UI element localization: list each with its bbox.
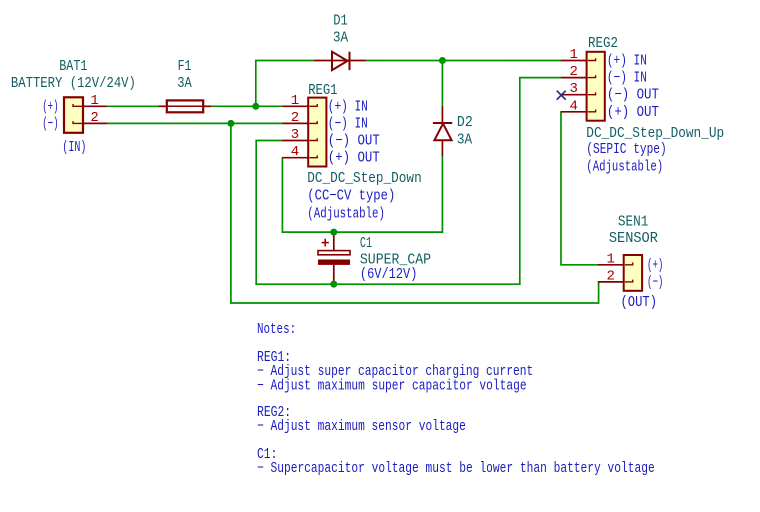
svg-text:Notes:: Notes: [257, 321, 296, 338]
svg-text:(−) OUT: (−) OUT [607, 87, 659, 104]
svg-text:F1: F1 [178, 58, 192, 75]
svg-text:C1: C1 [360, 235, 372, 252]
svg-text:SEN1: SEN1 [618, 213, 649, 230]
svg-text:(+) OUT: (+) OUT [328, 150, 380, 167]
svg-text:(+): (+) [647, 257, 663, 274]
svg-text:− Adjust maximum sensor voltag: − Adjust maximum sensor voltage [257, 418, 466, 435]
svg-text:4: 4 [291, 144, 299, 160]
svg-text:1: 1 [291, 93, 299, 109]
svg-text:BATTERY (12V/24V): BATTERY (12V/24V) [11, 75, 136, 92]
svg-text:DC_DC_Step_Down: DC_DC_Step_Down [307, 170, 421, 187]
svg-text:1: 1 [90, 93, 98, 109]
svg-text:(+): (+) [42, 98, 58, 115]
svg-text:(−) OUT: (−) OUT [328, 133, 380, 150]
svg-text:(−) IN: (−) IN [607, 70, 647, 87]
svg-text:3A: 3A [457, 132, 472, 149]
svg-text:1: 1 [569, 47, 577, 63]
svg-text:(CC−CV type): (CC−CV type) [307, 188, 395, 205]
svg-text:(IN): (IN) [62, 139, 86, 156]
svg-text:(−) IN: (−) IN [328, 115, 368, 132]
svg-text:DC_DC_Step_Down_Up: DC_DC_Step_Down_Up [586, 125, 724, 142]
svg-text:(OUT): (OUT) [621, 294, 658, 311]
svg-text:2: 2 [606, 268, 614, 284]
svg-text:− Supercapacitor voltage must: − Supercapacitor voltage must be lower t… [257, 460, 655, 477]
svg-text:3A: 3A [333, 29, 348, 46]
svg-text:2: 2 [569, 64, 577, 80]
svg-text:(SEPIC type): (SEPIC type) [586, 141, 666, 158]
svg-text:3A: 3A [177, 75, 192, 92]
svg-text:BAT1: BAT1 [59, 58, 87, 75]
svg-text:D2: D2 [457, 114, 473, 131]
svg-text:(+) OUT: (+) OUT [607, 104, 659, 121]
svg-text:(Adjustable): (Adjustable) [307, 206, 385, 223]
svg-text:REG2: REG2 [588, 35, 618, 52]
svg-text:4: 4 [569, 98, 577, 114]
svg-text:3: 3 [569, 81, 577, 97]
svg-text:2: 2 [90, 110, 98, 126]
svg-text:1: 1 [606, 251, 614, 267]
svg-text:REG1: REG1 [308, 82, 337, 99]
svg-text:SENSOR: SENSOR [609, 230, 658, 247]
svg-text:D1: D1 [333, 13, 348, 30]
svg-text:(6V/12V): (6V/12V) [360, 266, 418, 283]
svg-text:(−): (−) [647, 274, 663, 291]
svg-text:(+) IN: (+) IN [607, 53, 647, 70]
svg-text:− Adjust maximum super capacit: − Adjust maximum super capacitor voltage [257, 377, 527, 394]
svg-text:2: 2 [291, 110, 299, 126]
svg-text:3: 3 [291, 127, 299, 143]
svg-text:(−): (−) [42, 115, 58, 132]
svg-text:(Adjustable): (Adjustable) [586, 159, 663, 176]
svg-text:(+) IN: (+) IN [328, 98, 368, 115]
